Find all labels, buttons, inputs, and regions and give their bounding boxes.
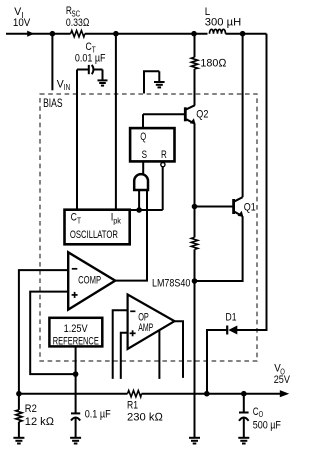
svg-text:Q2: Q2 bbox=[196, 109, 208, 121]
svg-text:25V: 25V bbox=[274, 374, 291, 386]
wire op-amp output pin bbox=[175, 321, 184, 378]
svg-text:Q1: Q1 bbox=[244, 202, 256, 214]
node reference junction bbox=[73, 371, 79, 377]
wire op-amp bottom pin bbox=[158, 330, 160, 379]
svg-text:D1: D1 bbox=[226, 312, 237, 324]
diode D1 bbox=[226, 312, 238, 335]
wire top rail bbox=[52, 33, 71, 35]
transistor Q1 bbox=[234, 197, 256, 216]
AND gate bbox=[134, 174, 148, 190]
svg-text:R1: R1 bbox=[127, 399, 138, 411]
oscillator box bbox=[65, 210, 130, 245]
node L left junction bbox=[191, 31, 197, 37]
wire Ipk sense line bbox=[115, 34, 117, 210]
wire rail RSC to L bbox=[85, 33, 208, 35]
wire VIN stub bbox=[51, 34, 53, 91]
node AND input junction bbox=[136, 207, 142, 213]
svg-text:0.01 µF: 0.01 µF bbox=[75, 53, 106, 65]
svg-text:180Ω: 180Ω bbox=[200, 57, 227, 69]
svg-text:10V: 10V bbox=[13, 17, 31, 29]
svg-text:230 kΩ: 230 kΩ bbox=[127, 411, 164, 423]
resistor R1 bbox=[127, 391, 164, 424]
capacitor CO bbox=[239, 394, 281, 438]
capacitor CT bbox=[75, 41, 106, 210]
wire oscillator to R input bbox=[130, 209, 163, 211]
ground for GND pin bbox=[189, 438, 200, 444]
output arrow bbox=[280, 390, 289, 397]
node emitter junction bbox=[192, 278, 198, 284]
wire switch node down right edge bbox=[237, 34, 267, 330]
transistor Q2 bbox=[185, 105, 208, 124]
wire GND pin line bbox=[194, 281, 196, 437]
wire Q1 collector up bbox=[242, 34, 244, 198]
node CO junction bbox=[241, 391, 247, 397]
R input bubble bbox=[161, 163, 165, 167]
ground pin stub at IC top bbox=[144, 71, 165, 93]
wire COMP inverting input bbox=[19, 270, 68, 394]
svg-text:12 kΩ: 12 kΩ bbox=[25, 416, 55, 428]
ground for CO bbox=[238, 438, 249, 444]
op-amp bbox=[128, 295, 175, 350]
svg-text:S: S bbox=[142, 149, 147, 161]
resistor RSC bbox=[66, 5, 90, 37]
wire op-amp non-inverting pin bbox=[121, 333, 128, 379]
svg-text:C: C bbox=[71, 212, 77, 224]
svg-text:pk: pk bbox=[113, 216, 122, 225]
svg-text:OSCILLATOR: OSCILLATOR bbox=[70, 229, 118, 241]
node Q1 base junction bbox=[192, 204, 198, 210]
svg-text:0.33Ω: 0.33Ω bbox=[66, 17, 90, 29]
comparator COMP bbox=[68, 252, 115, 309]
svg-text:500 µF: 500 µF bbox=[253, 419, 281, 431]
node Ipk junction bbox=[113, 31, 119, 37]
wire Q2 emitter down bbox=[194, 123, 196, 207]
wire AND right input from COMP out bbox=[115, 190, 147, 280]
capacitor 0.1uF bbox=[71, 408, 111, 438]
svg-text:AMP: AMP bbox=[138, 322, 153, 334]
svg-text:O: O bbox=[259, 410, 264, 419]
reference box bbox=[49, 318, 102, 348]
wire Q1 base bbox=[195, 206, 234, 208]
wire rail L to corner bbox=[226, 33, 267, 35]
svg-text:T: T bbox=[77, 217, 81, 226]
svg-text:LM78S40: LM78S40 bbox=[152, 277, 190, 289]
resistor base-emitter bbox=[191, 207, 197, 282]
dashed IC boundary box bbox=[40, 94, 257, 361]
input arrow bbox=[6, 31, 52, 37]
node divider junction bbox=[16, 391, 22, 397]
svg-text:R: R bbox=[161, 149, 167, 161]
svg-text:IN: IN bbox=[64, 83, 71, 92]
ground for CT bbox=[98, 70, 108, 86]
ground for R2 bbox=[13, 438, 24, 444]
wire AND left input bbox=[138, 190, 140, 210]
wire D1 cathode to output bbox=[207, 330, 227, 394]
resistor 180ohm bbox=[191, 34, 227, 70]
svg-text:300 µH: 300 µH bbox=[205, 17, 241, 29]
label VO 25V bbox=[274, 363, 291, 386]
inductor L bbox=[205, 6, 241, 34]
flip-flop latch bbox=[130, 128, 174, 161]
wire Q2 base bbox=[143, 113, 185, 115]
wire S pin bbox=[142, 161, 144, 175]
svg-text:COMP: COMP bbox=[78, 275, 101, 287]
wire op-amp inverting pin bbox=[113, 310, 128, 379]
wire COMP non-inverting input bbox=[30, 292, 75, 375]
resistor R2 bbox=[16, 394, 55, 438]
svg-text:Q: Q bbox=[140, 131, 146, 143]
wire R pin bbox=[162, 167, 164, 210]
svg-text:BIAS: BIAS bbox=[43, 98, 63, 110]
node L right junction bbox=[240, 31, 246, 37]
svg-text:1.25V: 1.25V bbox=[64, 323, 89, 335]
label VI 10V bbox=[13, 6, 31, 29]
wire Q1 emitter return bbox=[195, 216, 243, 281]
ground for 0.1uF bbox=[70, 438, 81, 444]
wire 180ohm to Q2 collector bbox=[194, 69, 196, 106]
svg-text:0.1 µF: 0.1 µF bbox=[85, 408, 111, 420]
node D1 output junction bbox=[204, 391, 210, 397]
node VIN junction bbox=[50, 31, 56, 37]
svg-text:R2: R2 bbox=[25, 403, 37, 415]
wire reference to cap bbox=[75, 346, 77, 414]
output rail bbox=[19, 393, 128, 395]
